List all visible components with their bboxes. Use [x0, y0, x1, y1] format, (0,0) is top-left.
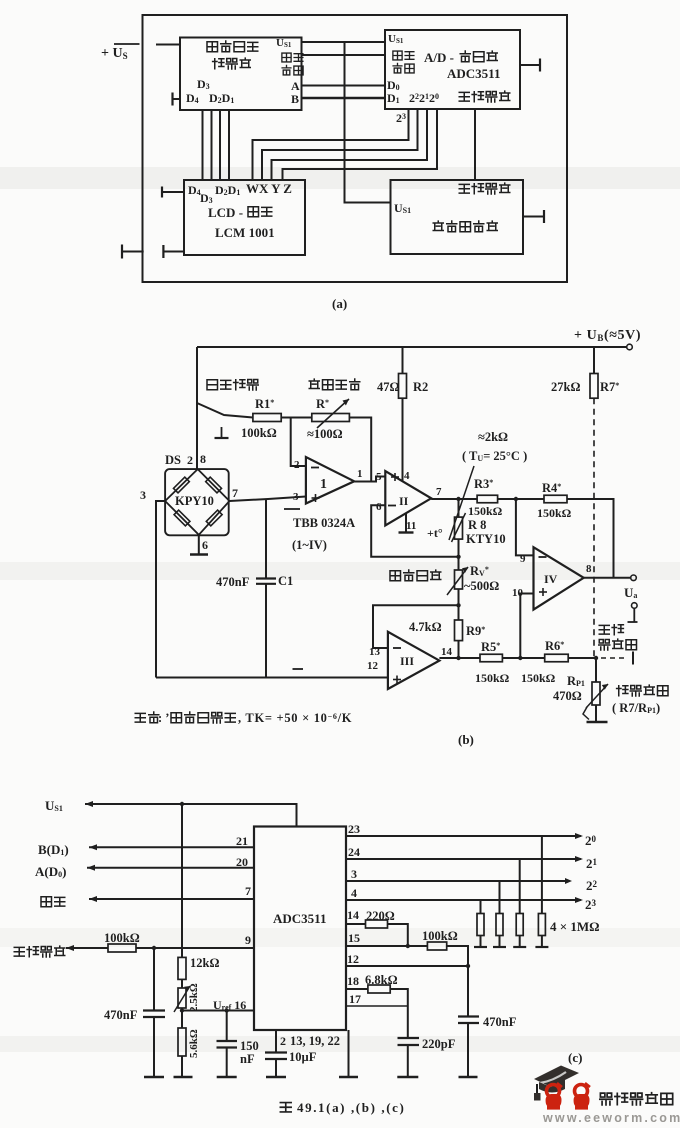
label DS [165, 453, 181, 467]
resistor 220 body [366, 920, 388, 928]
wire adc 2^0 to lcd Z [283, 109, 438, 180]
junction opamp2 out / R8 [456, 497, 460, 501]
label 150k under R5 [475, 671, 510, 685]
svg-text:7: 7 [232, 486, 238, 500]
svg-text:(a): (a) [332, 296, 347, 311]
svg-text:470nF: 470nF [104, 1008, 138, 1022]
svg-text:KTY10: KTY10 [466, 532, 506, 546]
label 470nF C1 [216, 574, 293, 589]
label 150k under R3 [468, 504, 503, 518]
label R1* [255, 397, 274, 411]
wire Rv to node A [458, 589, 460, 620]
wire trimmer to 5.6k [181, 1008, 183, 1028]
wire pin24 out 2^1 [346, 856, 583, 862]
label bridge pin 6 [202, 538, 208, 552]
pullup resistor 1M c wire [519, 859, 521, 914]
label approx 2k [478, 430, 508, 444]
op-amp U1c (III) [388, 632, 440, 689]
label bridge pin 3 [140, 488, 146, 502]
wire junction up to pin10 [520, 594, 533, 659]
svg-text:(b): (b) [458, 732, 474, 747]
label TU=25C [462, 449, 527, 463]
terminal stub left of clock block [173, 93, 181, 106]
polarity dash under wire [284, 508, 300, 510]
block LCD module LCM1001 [184, 180, 305, 255]
wire adc 2^1 to lcd Y [272, 109, 428, 180]
label (1~IV) [292, 538, 327, 552]
capacitor C1 wire lower [265, 584, 267, 678]
label pin5 [376, 471, 382, 483]
bridge resistor top-right [206, 477, 222, 493]
svg-text:DS: DS [165, 453, 181, 467]
wire opamp2 pin6 feedback [371, 505, 456, 557]
label Ua [624, 585, 637, 600]
floating ground symbol near rail [215, 427, 229, 438]
svg-text:470Ω: 470Ω [553, 689, 582, 703]
label 47ohm [377, 380, 400, 394]
label +UB(about 5V) [574, 328, 641, 343]
label pin3 [293, 491, 299, 503]
trimmer RP1 body [592, 682, 600, 705]
label 27k [551, 380, 580, 394]
wire Us1 clock to adc [302, 41, 386, 43]
label start (c) [41, 897, 65, 907]
thermistor R8 wire top [458, 499, 460, 517]
svg-text:4: 4 [404, 470, 410, 482]
terminal Ua lower [632, 603, 638, 609]
label R5* [481, 640, 500, 654]
wire bottom return to opamp3 plus [156, 677, 388, 679]
label R7* [600, 380, 619, 394]
wire R9 to opamp3 output [458, 641, 460, 658]
label B(D1) [38, 842, 69, 857]
label 4.7k [409, 620, 442, 634]
terminal stub outer box left [122, 245, 144, 259]
svg-text:8: 8 [200, 452, 206, 466]
label 150nF [240, 1039, 259, 1066]
svg-text:4 × 1MΩ: 4 × 1MΩ [550, 919, 600, 934]
svg-text:A: A [291, 79, 300, 93]
wire bridge pin7 to opamp1 pin3 [230, 497, 306, 502]
wire divider upper [181, 804, 183, 957]
junction R5R6 pin10 [518, 656, 522, 660]
label TBB 0324A [293, 516, 355, 530]
label minus opamp1 [311, 467, 319, 469]
label 6.8k [365, 973, 398, 987]
label no position correction line2 [599, 639, 637, 650]
svg-text:II: II [399, 494, 409, 508]
label R8 [468, 518, 486, 532]
label 5.6k rotated [188, 1029, 200, 1058]
label 12k [190, 956, 219, 970]
resistor 5.6k body [178, 1028, 186, 1056]
watermark cap stripe [540, 1072, 566, 1083]
label 2.5k rotated [188, 983, 200, 1012]
label +Us [101, 44, 140, 61]
wire +Us supply into block diagram [156, 44, 180, 46]
ground bar 220pF [397, 1076, 418, 1078]
junction Us1 divider [180, 802, 184, 806]
dashed stub right of junction [601, 652, 633, 665]
label pin23 [348, 822, 360, 836]
trimmer 2.5k body [178, 988, 186, 1008]
label pin2 [294, 459, 300, 471]
label R7/RP1 [612, 701, 660, 715]
trimmer 2.5k arrow [174, 986, 190, 1012]
wire 220 right down [388, 924, 408, 946]
wire Uref to pin16 [182, 1010, 254, 1012]
label +t deg [427, 526, 443, 540]
svg-text:WX Y Z: WX Y Z [246, 181, 292, 196]
svg-text:(c): (c) [568, 1050, 582, 1065]
label 2^0 [585, 833, 597, 848]
wire slant to R1 [197, 403, 253, 418]
scan band 2 [0, 562, 680, 580]
resistor 12k body [178, 957, 186, 979]
label clock pin D3 [197, 77, 210, 91]
svg-text:ADC3511: ADC3511 [447, 66, 500, 81]
caption figure 49.1 [280, 1100, 405, 1115]
label coarse gain adjust [390, 570, 441, 581]
pullup 1M a ground [474, 936, 487, 948]
capacitor 470nF left plates [143, 1011, 165, 1018]
wire adc meas voltage to sensor [474, 109, 476, 180]
svg-text:A(D0): A(D0) [35, 864, 66, 879]
resistor R7 wire top [593, 347, 595, 374]
label opamp4 numeral IV [544, 572, 558, 586]
svg-text:470nF: 470nF [483, 1015, 517, 1029]
junction filter cap [152, 946, 156, 950]
junction 150nF [225, 1008, 229, 1012]
label 2^3 [585, 897, 597, 912]
svg-text:2.5kΩ: 2.5kΩ [188, 983, 200, 1012]
leader line to R8 [449, 466, 474, 540]
junction 220/15 [406, 944, 410, 948]
svg-text:17: 17 [349, 992, 361, 1006]
svg-text:47Ω: 47Ω [377, 380, 400, 394]
wire start to pin7 [89, 896, 254, 902]
wire A(D0) to pin20 [87, 865, 254, 871]
capacitor 470nF right lower [467, 1023, 469, 1076]
label adc title [424, 50, 497, 65]
svg-text:100kΩ: 100kΩ [422, 929, 458, 943]
label clock-gen text [207, 41, 258, 69]
label pin7 (c) [245, 884, 251, 898]
label KPY10 [175, 494, 214, 508]
svg-text:100kΩ: 100kΩ [104, 931, 140, 945]
svg-text:3: 3 [140, 488, 146, 502]
trimmer Rv body [455, 570, 463, 589]
junction RP1 [594, 656, 598, 660]
label position correction [617, 685, 668, 696]
label pin11 [406, 520, 416, 532]
wire B(D1) to pin21 [89, 844, 254, 850]
svg-text:150kΩ: 150kΩ [468, 504, 503, 518]
label pin21 [236, 834, 248, 848]
pullup resistor 1M b body [496, 914, 503, 936]
label clock pin B [291, 92, 299, 106]
label clock pins D4 D2 D1 [186, 91, 234, 105]
svg-text:470nF: 470nF [216, 575, 250, 589]
label 100k input [104, 931, 140, 945]
caption note (b) metal film [135, 711, 352, 725]
label minus opamp3 [393, 647, 401, 649]
label Rv* [470, 564, 489, 578]
stub below lower terminal [628, 608, 638, 622]
label opamp1 number [320, 477, 327, 492]
label plus opamp3 [393, 676, 401, 684]
wire opamp2 output [431, 498, 477, 500]
label lcd pin D4 [188, 183, 201, 197]
label R* [316, 397, 329, 411]
svg-text:150: 150 [240, 1039, 259, 1053]
label KTY10 [466, 532, 506, 546]
thermistor R8 body [452, 513, 466, 542]
svg-text:49.1(a) ,(b) ,(c): 49.1(a) ,(b) ,(c) [297, 1100, 405, 1115]
label approx 100 ohm [307, 427, 343, 441]
svg-text:(1~IV): (1~IV) [292, 538, 327, 552]
label pin7 out [436, 486, 442, 498]
wire +UB supply rail [197, 346, 627, 348]
label pin18 [347, 974, 359, 988]
label (b) [458, 732, 474, 747]
label bridge pin 7 [232, 486, 238, 500]
svg-text:12kΩ: 12kΩ [190, 956, 219, 970]
label plus opamp2 [391, 473, 399, 481]
svg-text:7: 7 [436, 486, 442, 498]
svg-text:220pF: 220pF [422, 1037, 456, 1051]
svg-text:R 8: R 8 [468, 518, 486, 532]
wire D4 clock to lcd [202, 110, 204, 180]
wire 5.6k to ground [181, 1056, 183, 1076]
resistor R* trimmer body [312, 414, 350, 422]
capacitor 150nF wire [226, 1011, 228, 1042]
label ~500ohm [464, 579, 499, 593]
ground bar 470nF left [144, 1076, 164, 1078]
svg-text:27kΩ: 27kΩ [551, 380, 580, 394]
wire node A to pin13 [373, 605, 459, 648]
wire pin9 from R3R4 junction [516, 499, 534, 555]
label adc pin D1 [387, 91, 400, 105]
svg-text:1: 1 [320, 477, 327, 492]
ground bar 13 19 22 [339, 1076, 358, 1078]
label 2^1 [586, 856, 598, 871]
svg-text:IV: IV [544, 572, 558, 586]
IC ADC3511 body [254, 827, 346, 1031]
resistor R5* body [480, 654, 502, 662]
svg-text:21: 21 [236, 834, 248, 848]
label bridge pin 2 [187, 453, 193, 467]
wire R3 to R4 [498, 498, 544, 500]
svg-text:15: 15 [348, 931, 360, 945]
label 220ohm [366, 909, 395, 923]
terminal stub left of lcd upper [162, 187, 184, 198]
svg-text:+t°: +t° [427, 526, 443, 540]
wire opamp4 output [584, 577, 631, 579]
label pressure sensor text [433, 221, 497, 232]
op-amp U1b (II) [385, 471, 431, 525]
label RP1 [567, 674, 585, 688]
label R3* [474, 477, 493, 491]
scan band 3 [0, 928, 680, 947]
wire 6.8k right down [390, 989, 408, 1038]
svg-text:18: 18 [347, 974, 359, 988]
label adc meas voltage [459, 91, 510, 102]
bridge sensor KPY10 outer box [165, 469, 229, 535]
label 470ohm RP1 [553, 689, 582, 703]
label no position correction line1 [599, 625, 623, 635]
svg-text:www.eeworm.com: www.eeworm.com [542, 1111, 680, 1123]
op-amp U1d (IV) [534, 547, 584, 609]
block clock-generator U1 [180, 38, 302, 111]
trimmer RP1 wire top [595, 658, 597, 682]
wire rail down to bridge top [196, 347, 198, 469]
block A/D converter ADC3511 [385, 30, 520, 109]
wire D1 clock to lcd [228, 110, 230, 180]
capacitor C1 plates [256, 579, 276, 584]
label ADC3511 (c) [273, 911, 326, 926]
junction R3R4 to pin9 [514, 497, 518, 501]
junction Uref tap [180, 1008, 184, 1012]
terminal Ua upper [631, 575, 637, 581]
resistor 6.8k body [368, 985, 390, 993]
scan band 4 [0, 1036, 680, 1052]
watermark site name [600, 1093, 673, 1105]
junction R9 output [456, 656, 460, 660]
svg-text:LCD -: LCD - [208, 205, 243, 220]
label pin20 [236, 855, 248, 869]
svg-text:≈2kΩ: ≈2kΩ [478, 430, 508, 444]
ground at pin11 [399, 513, 414, 532]
watermark cap tassel [534, 1084, 541, 1101]
svg-text:3: 3 [351, 867, 357, 881]
label pin14 out [441, 646, 453, 658]
terminal stub left of lcd lower [163, 245, 184, 258]
svg-text:2: 2 [294, 459, 300, 471]
label 100k mid [422, 929, 458, 943]
label sensor meas voltage [459, 183, 510, 194]
wire D3 clock to lcd [211, 110, 213, 180]
wire Us1 branch down to sensor [345, 42, 391, 203]
svg-text:LCM 1001: LCM 1001 [215, 225, 275, 240]
terminal +UB [627, 344, 633, 350]
label A(D0) [35, 864, 66, 879]
terminal stub right of sensor [523, 210, 544, 223]
label (a) [332, 296, 347, 311]
capacitor 10uF lower [275, 1059, 277, 1076]
wire opamp1 out to opamp2 in+ [354, 477, 385, 482]
svg-text:12: 12 [347, 952, 359, 966]
ground bar 150nF [217, 1076, 237, 1078]
resistor R6* body [545, 654, 569, 662]
trimmer RP1 ground [587, 705, 608, 722]
svg-text:14: 14 [347, 908, 359, 922]
label pin14 [347, 908, 359, 922]
small dash above bottom wire [293, 668, 304, 670]
label opamp3 numeral III [400, 654, 414, 668]
ground bar 470nF right [459, 1076, 478, 1078]
op-amp U1a (1) [306, 457, 354, 504]
svg-text:222120: 222120 [409, 91, 439, 105]
resistor R2 wire top [402, 347, 404, 374]
junction feedback tap [456, 555, 460, 559]
label 2^2 [586, 878, 598, 893]
resistor R4* body [544, 495, 567, 503]
watermark worm char 2 [574, 1083, 590, 1110]
label plus opamp4 [539, 588, 547, 596]
wire pin23 out 2^0 [346, 833, 583, 839]
wire pin4 out 2^3 [346, 897, 583, 903]
wire A to D0 [302, 85, 386, 87]
label adc bits 2^2 2^1 2^0 [409, 91, 439, 105]
wire pin3 out 2^2 [346, 878, 572, 884]
watermark url [542, 1111, 680, 1125]
svg-text:24: 24 [348, 845, 360, 859]
svg-text:A/D -: A/D - [424, 50, 454, 65]
label ADC3511 [447, 66, 500, 81]
svg-text:100kΩ: 100kΩ [241, 426, 277, 440]
label Uref 16 [213, 998, 246, 1012]
label plus opamp1 [312, 494, 320, 502]
ground bar 10uF [266, 1076, 286, 1078]
label adjust offset [309, 379, 360, 390]
capacitor 470nF right plates [458, 1017, 479, 1024]
svg-text:KPY10: KPY10 [175, 494, 214, 508]
wire pin18 to 6.8k [346, 988, 368, 990]
label pin3 (c) [351, 867, 357, 881]
wire R4 right down to output [567, 499, 614, 578]
bridge bottom ground [190, 535, 208, 555]
bridge resistor bottom-left [174, 510, 190, 526]
label clock pin end [282, 65, 303, 74]
label bridge pin 8 [200, 452, 206, 466]
trimmer arrow Rv [447, 567, 468, 595]
terminal stub right of adc [520, 59, 540, 72]
wire Us1 input (c) [85, 801, 297, 827]
svg-text:13: 13 [369, 646, 381, 658]
wire R6 to RP1 junction [568, 657, 596, 659]
wire pin17 [346, 1005, 408, 1007]
svg-text:~500Ω: ~500Ω [464, 579, 499, 593]
svg-text:10: 10 [512, 587, 524, 599]
svg-text:23: 23 [348, 822, 360, 836]
label opamp2 numeral II [399, 494, 409, 508]
resistor R9* body [455, 620, 463, 641]
svg-text:+ UB(≈5V): + UB(≈5V) [574, 328, 641, 343]
label clock pin A [291, 79, 300, 93]
wire opamp3 output [439, 657, 480, 659]
label pin4 (c) [351, 886, 357, 900]
pullup 1M d ground [535, 936, 548, 948]
svg-text:C1: C1 [278, 574, 293, 588]
svg-text:2: 2 [187, 453, 193, 467]
svg-text:12: 12 [367, 660, 379, 672]
label minus opamp4 [539, 556, 547, 558]
svg-text:6.8kΩ: 6.8kΩ [365, 973, 398, 987]
wire 100k to pin9 [136, 947, 254, 949]
svg-text:150kΩ: 150kΩ [537, 506, 572, 520]
label 100k [241, 426, 277, 440]
label pin24 [348, 845, 360, 859]
svg-text:6: 6 [376, 501, 382, 513]
label 4 x 1M [550, 919, 600, 934]
label adc pin end [393, 63, 414, 72]
resistor R3* body [477, 495, 498, 503]
wire 12k to trimmer [181, 979, 183, 988]
wire pin12 [346, 965, 468, 967]
wire adc 2^3 to lcd W [253, 109, 409, 180]
label adc bit 2^3 [396, 111, 406, 125]
